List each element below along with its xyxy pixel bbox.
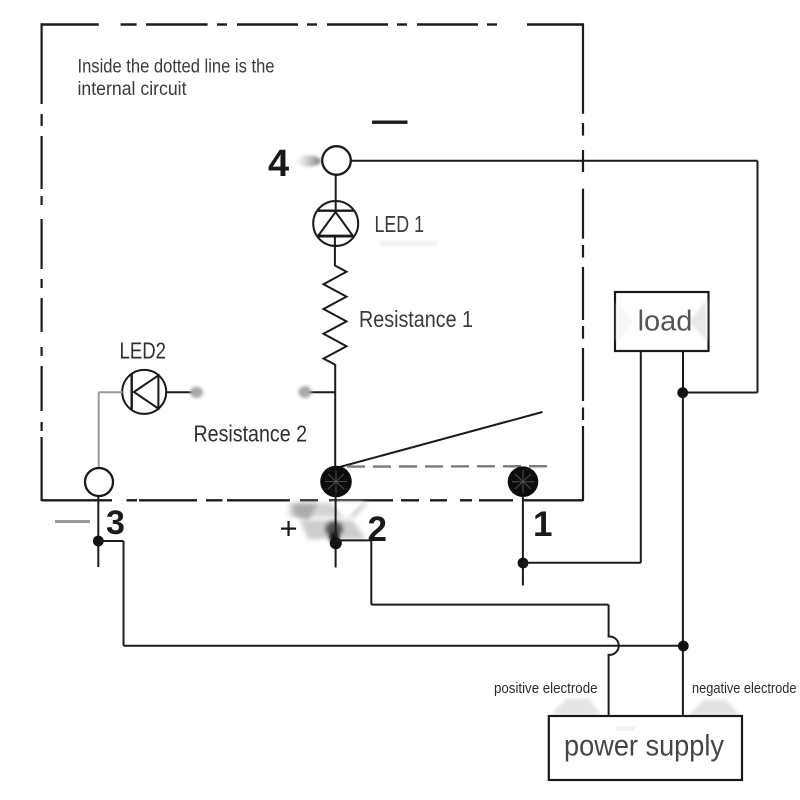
junction dot B (678, 641, 689, 652)
minus polarity mark above terminal 4 (372, 121, 408, 124)
wire terminal 1 junction right to load (523, 562, 641, 564)
label 1 (533, 505, 552, 544)
dashed internal-circuit boundary: right border (582, 23, 584, 501)
junction dot below terminal 1 (518, 558, 529, 569)
svg-text:power supply: power supply (564, 730, 724, 763)
label 3 (106, 504, 125, 542)
wire terminal 3 junction to the right (98, 540, 123, 542)
negative electrode wire down (682, 393, 684, 716)
terminal 3 circle (85, 468, 113, 496)
wire terminal 1 down through junction (522, 496, 524, 586)
wire LED2 right lead (166, 391, 193, 393)
gray minus polarity mark left of 3 (55, 520, 90, 523)
LED D1 symbol (313, 201, 358, 246)
svg-text:Resistance 1: Resistance 1 (359, 306, 473, 332)
stub tick on wire (remnant of Resistance 2 branch) (308, 391, 336, 393)
wire down left column (123, 541, 125, 646)
watermark smudge right of label 4 (295, 156, 321, 167)
label positive electrode (494, 680, 598, 697)
terminal 4 circle (322, 146, 351, 175)
junction dot A (677, 387, 688, 398)
wire right side vertical down (757, 161, 759, 393)
watermark smudges above power supply (551, 699, 740, 715)
svg-text:+: + (280, 511, 298, 546)
junction dot below terminal 2 (330, 537, 342, 549)
junction dot at terminal 3 (93, 536, 104, 547)
label 4 (268, 143, 289, 185)
wire terminal 4 down into LED 1 (335, 175, 337, 211)
svg-text:1: 1 (533, 505, 552, 544)
LED D2 symbol (122, 370, 166, 414)
dashed internal-circuit boundary: top border (42, 23, 583, 25)
wire LED 1 to resistor R1 (334, 236, 336, 266)
load box (615, 292, 709, 351)
wire resistor R1 down to terminal 2 (334, 364, 336, 470)
wire right to positive column (371, 604, 608, 606)
watermark blob at tick end (299, 386, 312, 398)
label Resistance 1 (359, 306, 473, 332)
wire LED2 left lead (gray) (99, 391, 123, 393)
long bottom wire to junction B (124, 645, 684, 647)
svg-text:3: 3 (106, 504, 125, 542)
load right lead down to junction A (682, 351, 684, 393)
wire from terminal 2 junction right (336, 539, 372, 541)
svg-text:Inside the dotted line is the: Inside the dotted line is the (78, 56, 275, 78)
svg-text:4: 4 (268, 143, 289, 185)
label 2 (368, 510, 387, 549)
load left lead up (640, 351, 642, 563)
switch dashed rest position (347, 465, 550, 468)
power supply box (549, 716, 742, 780)
svg-text:Resistance 2: Resistance 2 (194, 421, 308, 447)
svg-text:positive electrode: positive electrode (494, 680, 598, 697)
watermark blob at LED2 right lead end (190, 387, 203, 398)
svg-text:LED2: LED2 (120, 338, 167, 364)
terminal 2 pad (large dot) (320, 466, 352, 498)
svg-text:load: load (638, 306, 693, 338)
wire down (370, 540, 372, 604)
wire terminal 2 down through junction (335, 494, 337, 568)
faint watermark line under LED 1 label (380, 242, 437, 246)
watermark arrow smudge around terminal 2 (289, 502, 368, 543)
terminal 1 pad (large dot) (508, 466, 539, 497)
wire gray vertical down to terminal 3 (98, 392, 100, 468)
label LED2 (120, 338, 167, 364)
wire into junction A (683, 392, 758, 394)
switch arm from terminal 2 (336, 412, 543, 468)
annotation: inside the dotted line text (78, 56, 275, 101)
svg-text:internal circuit: internal circuit (78, 78, 188, 100)
label Resistance 2 (194, 421, 308, 447)
dashed internal-circuit boundary: left border (40, 23, 42, 501)
wire terminal 3 down through junction (97, 496, 99, 567)
svg-text:LED 1: LED 1 (375, 211, 425, 237)
label LED 1 (375, 211, 425, 237)
svg-text:negative electrode: negative electrode (692, 680, 797, 697)
resistor R1 zigzag (324, 266, 347, 365)
positive electrode wire with hop over bottom wire (609, 605, 619, 716)
wire from terminal 4 to right side (352, 160, 758, 162)
dashed internal-circuit boundary: bottom border (42, 499, 583, 501)
plus polarity mark left of terminal 2 (280, 511, 298, 546)
label negative electrode (692, 680, 797, 697)
